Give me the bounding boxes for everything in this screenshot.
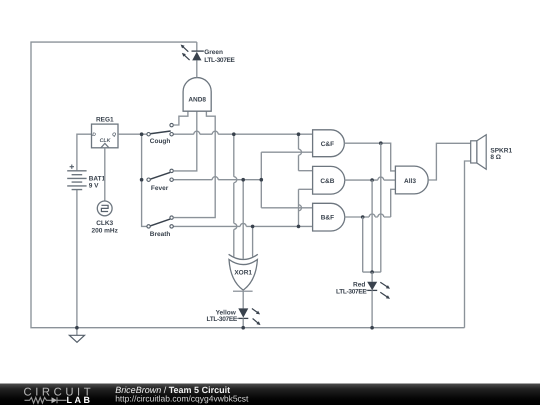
and-gate C&F <box>313 130 345 157</box>
and-gate C&B <box>313 166 345 194</box>
terminal Breath pole <box>147 225 150 228</box>
arrow red LED emission 2 <box>380 292 388 297</box>
svg-text:Breath: Breath <box>150 231 171 238</box>
svg-text:C&F: C&F <box>321 141 334 148</box>
wire B&F tap down <box>362 217 364 272</box>
wire Fever tap to XOR1 in2 <box>242 180 244 259</box>
svg-text:Fever: Fever <box>151 185 169 192</box>
clock source CLK3 <box>97 201 112 216</box>
svg-text:LTL-307EE: LTL-307EE <box>204 57 235 64</box>
junction rail-Fever pole <box>140 178 144 182</box>
wire C&F output to All3 in1 <box>344 143 395 171</box>
svg-text:8 Ω: 8 Ω <box>490 154 501 161</box>
terminal Fever throw up <box>170 169 173 172</box>
speaker SPKR1 <box>471 141 477 163</box>
wire B&F output to All3 in3 <box>391 189 396 217</box>
wire Breath lower throw to B&F input B <box>173 223 312 226</box>
wire yellow LED to bus <box>242 318 244 327</box>
wire Breath tap to XOR1 in3 <box>252 226 254 256</box>
svg-text:Green: Green <box>204 49 223 56</box>
svg-text:XOR1: XOR1 <box>234 269 252 276</box>
junction yellow LED bus <box>241 326 245 330</box>
svg-text:AND8: AND8 <box>188 97 206 104</box>
footer bar <box>0 384 540 405</box>
wire REG1 CLK to CLK3 <box>104 148 106 201</box>
svg-text:CLK: CLK <box>100 138 112 144</box>
wire red LED to bus <box>371 290 373 327</box>
svg-text:LTL-307EE: LTL-307EE <box>336 289 367 296</box>
and-gate B&F <box>313 203 345 231</box>
wire Breath to C&B input B vertical <box>299 189 302 226</box>
wire AND8 output to green LED <box>196 60 198 77</box>
wire Fever riser <box>260 152 262 208</box>
battery BAT1 <box>67 171 86 190</box>
wire top bus to green LED <box>196 42 198 51</box>
wire B&F output horizontal <box>344 214 390 217</box>
svg-text:Red: Red <box>353 282 365 289</box>
wire Fever upper throw to AND8 in2 <box>173 111 197 171</box>
wire red label tick <box>366 289 368 291</box>
wire Cough upper throw to AND8 in1 <box>173 111 188 125</box>
wire XOR1 output to yellow LED <box>242 290 244 308</box>
svg-text:9 V: 9 V <box>89 182 99 189</box>
svg-text:REG1: REG1 <box>96 116 114 123</box>
junction Cough rail tap <box>232 132 236 136</box>
wire BAT1 minus down to bus and ground <box>76 190 78 335</box>
terminal Fever throw down <box>170 178 173 181</box>
wire main ground loop (top, left, bottom bus) <box>31 42 465 328</box>
led LED3 Yellow LTL-307EE <box>238 308 248 317</box>
wire Cough tap to XOR1 in1 <box>234 134 237 257</box>
arrow green LED emission 2 <box>184 55 190 60</box>
terminal Cough throw up <box>170 123 173 126</box>
junction B&F output tap <box>361 215 365 219</box>
wire BAT1 plus to REG1 D input <box>77 134 92 170</box>
svg-text:LTL-307EE: LTL-307EE <box>207 316 238 323</box>
ground <box>69 335 84 342</box>
wire Cough lower throw to C&F input A <box>173 131 312 134</box>
junction Fever riser <box>260 178 264 182</box>
wire Cough to C&B input A vertical <box>299 134 302 171</box>
wire C&B output to All3 in2 <box>344 177 395 180</box>
wire REG1 Q output <box>118 133 147 135</box>
arrow yellow LED emission 1 <box>252 309 258 313</box>
wire All3 output to SPKR1 <box>428 143 471 180</box>
svg-text:Q: Q <box>112 132 116 138</box>
switch SW Fever lever <box>150 172 170 179</box>
wire Breath to C&B input B horizontal <box>299 188 313 190</box>
svg-text:Cough: Cough <box>150 138 171 145</box>
switch SW Breath lever <box>150 219 170 226</box>
svg-text:All3: All3 <box>404 178 416 185</box>
led LED1 Green LTL-307EE <box>192 50 204 52</box>
svg-text:CLK3: CLK3 <box>96 220 113 227</box>
wire C&F tap down <box>380 143 382 272</box>
wire into red LED <box>371 272 373 282</box>
svg-text:http://circuitlab.com/cqyg4vwb: http://circuitlab.com/cqyg4vwbk5cst <box>115 394 249 404</box>
junction Breath rail to C&B <box>297 225 301 229</box>
svg-text:D: D <box>92 132 96 138</box>
wire Fever to C&F input B <box>261 151 312 153</box>
junction rail-Cough pole <box>140 132 144 136</box>
wire Fever lower throw rail <box>173 177 261 180</box>
junction Fever rail tap <box>241 178 245 182</box>
svg-text:200 mHz: 200 mHz <box>92 227 119 234</box>
svg-text:C&B: C&B <box>320 178 334 185</box>
junction red LED feed <box>370 270 374 274</box>
terminal Cough pole <box>147 133 150 136</box>
and-gate All3 <box>395 166 428 194</box>
wire Cough to C&B input A horizontal <box>299 170 313 172</box>
flip-flop REG1 box <box>92 124 119 148</box>
svg-text:B&F: B&F <box>321 215 334 222</box>
junction C&F output tap <box>379 141 383 145</box>
xor-gate XOR1 <box>229 260 257 291</box>
wire speaker negative return <box>465 161 471 328</box>
led LED2 Red LTL-307EE <box>367 282 377 290</box>
arrow red LED emission 1 <box>380 282 388 287</box>
and-gate AND8 <box>183 78 211 112</box>
terminal Fever pole <box>147 178 150 181</box>
wire switch pole rail vertical <box>142 134 147 226</box>
terminal Cough throw down <box>170 133 173 136</box>
wire Fever to B&F input A <box>261 207 312 209</box>
junction Breath rail tap <box>251 225 255 229</box>
junction Cough rail to C&B <box>297 132 301 136</box>
svg-text:LAB: LAB <box>67 395 93 405</box>
junction red LED bus <box>370 326 374 330</box>
wire XOR1 output bar <box>233 290 253 292</box>
junction C&B output tap <box>370 178 374 182</box>
wire yellow label tick <box>236 317 238 319</box>
wire C&B tap down <box>371 180 373 272</box>
arrow green LED emission 1 <box>183 46 189 51</box>
junction bus-battery-ground <box>75 326 79 330</box>
arrow yellow LED emission 2 <box>253 319 259 324</box>
terminal Breath throw up <box>170 216 173 219</box>
wire Breath upper throw to AND8 in3 <box>173 111 215 217</box>
wire red LED tie bar <box>363 271 381 273</box>
switch SW Cough lever <box>150 131 171 134</box>
terminal Breath throw down <box>170 225 173 228</box>
svg-text:BAT1: BAT1 <box>89 175 106 182</box>
